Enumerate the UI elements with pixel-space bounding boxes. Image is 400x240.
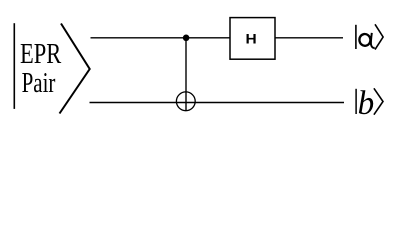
EPR source right chevron [60, 24, 90, 114]
CNOT target circle [176, 92, 195, 111]
EPR source left bar [13, 23, 15, 109]
svg-text:EPR: EPR [20, 39, 61, 70]
wire q1 (bottom) [90, 102, 345, 104]
ket a angle bracket [375, 24, 383, 49]
ket a bar [355, 25, 357, 49]
CNOT vertical wire [185, 38, 187, 111]
CNOT control dot [183, 35, 190, 42]
ket a letter [359, 33, 375, 48]
svg-text:H: H [246, 31, 257, 47]
Hadamard gate box U1 [230, 18, 275, 60]
ket b angle bracket [374, 88, 383, 114]
svg-text:Pair: Pair [22, 68, 56, 99]
ket b bar [355, 89, 357, 114]
wire q0 (top) [91, 37, 344, 39]
svg-text:b: b [358, 85, 375, 122]
